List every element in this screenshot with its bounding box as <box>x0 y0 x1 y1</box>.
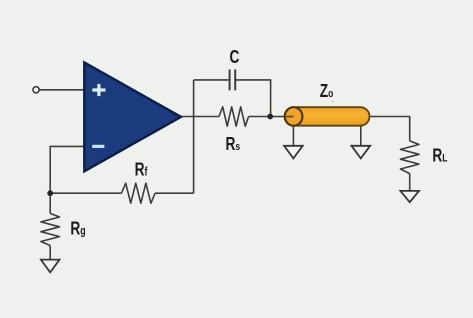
svg-text:C: C <box>230 47 240 67</box>
